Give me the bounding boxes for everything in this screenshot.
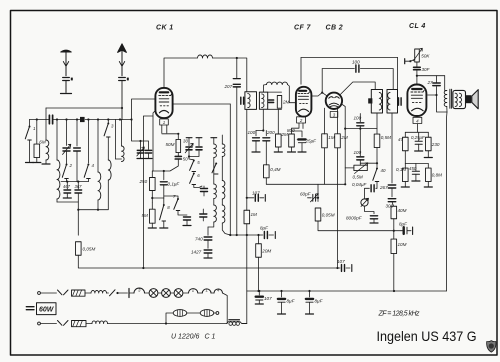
wire rail235 <box>230 234 261 236</box>
capacitor pair g2 <box>145 150 151 153</box>
resistor 2M CB2 <box>335 134 348 148</box>
svg-text:0,8M: 0,8M <box>432 173 442 178</box>
terminal bar heater string <box>128 289 130 298</box>
node J1b <box>163 170 165 172</box>
switch heater tap <box>110 290 116 296</box>
node c107b <box>258 290 260 292</box>
wire r230 dn <box>427 151 429 157</box>
capacitor 27 <box>427 80 441 86</box>
wire ant2 to input rail <box>121 81 123 120</box>
wire cap01 link <box>152 197 164 199</box>
wire 005M drop upper <box>77 202 79 235</box>
resistor 5M <box>142 209 156 223</box>
wire heater e <box>183 292 189 294</box>
node rail d <box>87 118 89 120</box>
resistor 2M IF1 <box>277 96 289 109</box>
tube CL4 envelope <box>407 85 426 117</box>
wire 5M dn <box>151 223 153 227</box>
svg-text:107: 107 <box>337 259 345 264</box>
terminal bar 107 HT <box>351 265 353 272</box>
wire osc a <box>203 186 205 188</box>
wire rail230 ext <box>401 230 402 232</box>
svg-text:60W: 60W <box>39 307 55 314</box>
ground 450 <box>412 180 420 182</box>
arrow tuning cap <box>63 144 71 154</box>
wire cath left drop <box>143 116 153 268</box>
wire mains upper a <box>41 292 57 294</box>
svg-text:467: 467 <box>63 184 71 189</box>
svg-text:30: 30 <box>183 139 188 144</box>
wire 1M CB2 top <box>324 108 326 134</box>
wire r230 top <box>427 132 429 137</box>
wire rail CF7 plate <box>301 57 398 59</box>
wire rail CB2 100 <box>322 68 354 70</box>
svg-text:267: 267 <box>379 185 388 190</box>
node rail sw1 <box>36 118 38 120</box>
fuse mains lower <box>72 321 87 327</box>
svg-text:8μF: 8μF <box>260 226 269 231</box>
wire mains lower b <box>86 323 92 325</box>
wire 50M top <box>177 134 179 140</box>
capacitor osc b <box>184 217 191 220</box>
wire input rail lower right <box>85 119 131 121</box>
svg-text:207: 207 <box>224 84 233 89</box>
capacitor tuning variable <box>63 148 70 151</box>
node 30F junction <box>416 75 418 77</box>
wire c107b dn <box>258 300 260 303</box>
wire rail CB2 100 b <box>360 68 393 70</box>
wire 10M dn <box>393 254 395 292</box>
wire sw4 top <box>87 120 89 164</box>
wire heater b <box>145 292 150 294</box>
capacitor 30F <box>414 67 431 72</box>
wire J1 cross <box>152 170 164 172</box>
capacitor 200 grid <box>263 130 275 141</box>
wire c8a dn <box>281 303 283 314</box>
wire 800 dn <box>291 147 293 152</box>
coil osc L6c <box>222 205 225 223</box>
node heater tap <box>116 292 118 294</box>
node rail235 a <box>236 234 238 236</box>
wire 250 dn <box>151 191 153 203</box>
svg-text:1M: 1M <box>251 212 258 217</box>
wire mains upper d <box>118 292 128 294</box>
wire CF7 grid caps bus <box>256 130 263 132</box>
svg-text:0,05M: 0,05M <box>83 247 96 252</box>
svg-text:20M: 20M <box>261 249 271 254</box>
svg-text:230: 230 <box>431 142 440 147</box>
IF transformer 1 primary box <box>245 92 257 110</box>
wire 300 dn <box>392 202 394 206</box>
wire det cap column <box>359 114 361 122</box>
wire CF7 pin lead b <box>302 123 304 128</box>
dial lamp 2 <box>162 289 171 298</box>
coil L2 band <box>57 160 60 199</box>
svg-text:2: 2 <box>69 163 73 168</box>
node rail e <box>97 118 99 120</box>
node grid feed <box>130 118 132 120</box>
coil grid CF7 <box>267 82 288 84</box>
wire CB2 diode lead <box>341 104 345 185</box>
tube CF7 envelope <box>296 87 312 117</box>
resistor 230 <box>426 137 440 151</box>
svg-text:4: 4 <box>217 288 220 293</box>
node rail g <box>119 118 121 120</box>
wire sw8 dn <box>163 221 165 228</box>
wire sw8 top <box>163 198 165 205</box>
wire CK1 pin lead b <box>166 125 168 133</box>
svg-text:27: 27 <box>427 80 434 85</box>
wire CB2 diag <box>340 82 375 95</box>
terminal bar 8uF coupling <box>412 227 414 235</box>
terminal ballast <box>216 312 219 315</box>
resistor 0.05M <box>76 242 96 256</box>
wire 005M det dn <box>318 221 401 231</box>
wire osc main vertical <box>229 104 231 235</box>
wire IF1 sec top ext <box>268 91 282 93</box>
ground sw8 <box>160 227 168 229</box>
svg-text:+: + <box>297 138 300 144</box>
svg-text:1: 1 <box>205 288 207 293</box>
wire IF1 sec dn <box>262 109 264 130</box>
terminal bar trim30 <box>186 137 192 139</box>
capacitor 8uF stub <box>260 226 269 239</box>
coil mains filter upper <box>91 291 107 294</box>
wire padder top <box>198 138 200 146</box>
wire IF2 right drop <box>392 69 394 90</box>
svg-text:250: 250 <box>139 179 148 184</box>
tube CF7 pin box 2 <box>297 117 306 123</box>
svg-text:8μF: 8μF <box>399 222 408 227</box>
coil osc L5a <box>214 144 217 158</box>
wire ground rail <box>247 290 447 292</box>
coil IF1 primary <box>248 94 250 108</box>
wire 004 to jack <box>365 188 370 199</box>
capacitor 467 <box>64 190 71 193</box>
wire 40M dn <box>393 219 395 231</box>
resistor 250 <box>139 178 156 191</box>
pickup jack <box>361 198 369 206</box>
wire row2c top <box>427 164 429 169</box>
resistor ballast b <box>173 310 187 317</box>
svg-text:107: 107 <box>264 296 272 301</box>
wire mains upper c <box>107 292 109 294</box>
wire B+ jog <box>417 75 445 77</box>
wire row2a dn <box>404 182 406 187</box>
wire CK1 pin lead a <box>161 125 163 133</box>
coil L5 band <box>122 146 125 162</box>
capacitor 107 det <box>252 191 260 202</box>
ground L1 <box>42 163 50 165</box>
node c8a <box>280 290 282 292</box>
capacitor 60pF trimmer <box>300 191 318 202</box>
wire mains to ground rail <box>246 291 248 324</box>
resistor 20M <box>256 244 272 258</box>
capacitor 50 <box>175 156 188 161</box>
capacitor 0.1uF <box>160 182 180 187</box>
ground row2c <box>424 186 432 188</box>
capacitor 207 <box>224 84 241 89</box>
wire IF2 prim dn <box>376 113 378 134</box>
capacitor 25uF <box>298 139 317 144</box>
node trim junction <box>188 155 190 157</box>
switch 8 <box>160 204 171 221</box>
svg-text:60pF: 60pF <box>300 191 312 196</box>
wire coilA top <box>213 138 215 144</box>
wire sw5 top <box>189 157 194 160</box>
terminal bar padder <box>196 137 202 139</box>
wire det cap dn <box>359 160 361 165</box>
node row198 <box>246 197 248 199</box>
svg-text:740: 740 <box>195 237 203 242</box>
wire row2a top <box>404 164 406 169</box>
speaker cone <box>472 90 478 109</box>
coil anode RF choke <box>198 55 213 58</box>
ground 6M <box>33 162 41 164</box>
wire 207 stub <box>236 58 238 78</box>
capacitor 107 HT <box>337 259 345 271</box>
svg-text:40: 40 <box>381 168 386 173</box>
wire L1 top <box>45 120 47 141</box>
wire 367 top <box>77 182 79 189</box>
filament transformer <box>227 319 247 325</box>
wire row198 c <box>308 197 312 199</box>
resistor 6M <box>34 140 46 158</box>
IF transformer 1 secondary box <box>259 92 267 109</box>
switch 9 pickup <box>373 168 379 182</box>
node c8b <box>308 290 310 292</box>
mark ant2 a <box>127 78 129 81</box>
wire sw1 top <box>29 120 31 127</box>
resistor 0.5M det <box>374 134 391 148</box>
wire 27 column <box>436 87 438 95</box>
wire 2M CB2 dn long <box>337 148 339 268</box>
svg-text:CK 1: CK 1 <box>156 25 174 32</box>
node diode rail <box>344 183 346 185</box>
wire 50K dn <box>416 62 418 67</box>
node 207 top <box>236 57 238 59</box>
svg-text:2M: 2M <box>282 100 290 105</box>
wire CL4 bottom bus <box>405 131 428 133</box>
wire 740 dn <box>207 240 209 248</box>
ground 8000pF <box>370 222 378 224</box>
svg-text:4: 4 <box>92 163 95 168</box>
svg-text:450: 450 <box>409 166 417 171</box>
speaker magnet <box>466 95 472 103</box>
tube CL4 pin box 4 <box>413 117 422 123</box>
wire jack dn <box>365 206 375 214</box>
wire CB2 left drop <box>322 69 327 97</box>
node bus 467 <box>66 181 68 183</box>
wire trim dn <box>188 151 190 157</box>
svg-text:50M: 50M <box>166 142 175 147</box>
capacitor 100 grid <box>248 130 260 141</box>
wire cap200 top <box>265 131 267 136</box>
wire sw1 dn <box>29 140 31 162</box>
svg-text:0,1μF: 0,1μF <box>168 182 181 187</box>
wire heater c <box>158 292 162 294</box>
resistor 0.4M <box>264 165 281 178</box>
node rail235 b <box>257 234 259 236</box>
wire mains lower c <box>108 323 227 325</box>
capacitor trimmer 30 <box>183 139 193 153</box>
ground 230 <box>424 157 432 159</box>
wire primary top <box>445 90 447 92</box>
fuse mains upper <box>72 290 86 296</box>
wire C var down <box>66 151 68 164</box>
coil L4 band <box>108 160 111 180</box>
capacitor 100 det b <box>354 150 364 160</box>
wire rail upper left drop <box>45 108 47 120</box>
wire 2M grid dn <box>277 147 279 152</box>
label 60W box <box>37 303 57 315</box>
wire heater f <box>198 292 203 294</box>
wire CL4 lead <box>416 124 418 132</box>
wire C fix top <box>76 120 78 147</box>
resistor 40M <box>391 206 407 219</box>
wire L2 bottom to bus <box>56 199 58 202</box>
wire sw9 dn <box>376 182 378 189</box>
wire transformer top drop <box>444 76 446 91</box>
wire HT rail <box>143 267 337 269</box>
wire plate down <box>437 95 448 112</box>
capacitor 107 rail <box>256 296 272 301</box>
svg-text:100: 100 <box>354 150 362 155</box>
capacitor 1427 <box>191 250 212 255</box>
svg-text:8μF: 8μF <box>315 299 324 304</box>
coil L1 antenna <box>46 140 49 160</box>
svg-text:1M: 1M <box>328 135 335 140</box>
svg-text:6M: 6M <box>39 140 46 145</box>
wire C fix down <box>76 151 78 182</box>
capacitor IF2 right <box>399 98 402 105</box>
arrow trimmer g1 <box>137 147 145 156</box>
wire rail drop right <box>397 58 399 98</box>
wire 10M top <box>393 231 395 239</box>
IF transformer 2 secondary box <box>387 90 398 114</box>
svg-text:1: 1 <box>163 120 166 125</box>
wire IF1 prim dn <box>246 109 248 210</box>
wire loop return base <box>116 158 122 160</box>
wire rail235 cap <box>261 234 263 236</box>
capacitor series antenna <box>49 115 52 124</box>
node 250 bot <box>151 197 153 199</box>
svg-text:0,4M: 0,4M <box>270 167 280 172</box>
ground cap100 <box>252 151 260 153</box>
wire 20M dn <box>258 257 260 291</box>
wire heater return <box>223 293 228 324</box>
svg-text:107: 107 <box>252 191 260 196</box>
wire CK1 plate to osc <box>173 103 230 105</box>
capacitor 300 <box>386 199 396 209</box>
ground 2M grid <box>274 151 282 153</box>
coil osc L6b <box>222 181 225 200</box>
ground c107b <box>255 303 263 305</box>
wire r47 dn <box>404 151 406 164</box>
node return mains <box>165 322 167 324</box>
switch 4 <box>84 163 94 179</box>
wire ballast term <box>214 312 216 314</box>
wire grid feed CK1 <box>132 99 156 120</box>
node capg <box>139 140 141 142</box>
wire 2M CB2 top <box>337 109 339 134</box>
wire 207 dn <box>236 87 238 235</box>
ground c8b <box>306 313 314 315</box>
resistor 800 <box>287 128 295 147</box>
capacitor osc c <box>200 214 207 217</box>
wire row2c dn <box>427 182 429 187</box>
svg-text:8μF: 8μF <box>287 299 296 304</box>
wire CF7 top cap <box>300 58 302 85</box>
wire 740 top <box>207 227 209 235</box>
wire 8000 dn <box>373 219 375 223</box>
node rail 394 <box>393 290 395 292</box>
capacitor 450 <box>409 164 420 181</box>
wire coilA link2 <box>213 199 215 206</box>
wire 04M dn <box>265 178 267 185</box>
coil osc L6a <box>222 144 225 157</box>
wire capg2 dn <box>147 153 149 158</box>
svg-text:3: 3 <box>333 112 336 117</box>
wire capg1 dn <box>140 153 142 158</box>
svg-text:25μF: 25μF <box>305 139 318 144</box>
ground capg1 <box>137 158 144 160</box>
svg-text:6: 6 <box>197 173 200 178</box>
tube CB2 envelope <box>326 93 342 109</box>
wire heater d <box>170 292 174 294</box>
wire top loop right <box>213 58 247 92</box>
wire 467 top <box>66 182 68 189</box>
svg-text:CL 4: CL 4 <box>409 23 426 30</box>
resistor 2M grid <box>276 132 289 147</box>
wire CK1 cath left <box>153 110 156 171</box>
wire band bus <box>61 181 88 183</box>
coil output primary <box>444 91 447 107</box>
wire coilA bot <box>208 222 214 227</box>
node rail c <box>76 118 78 120</box>
ground osc <box>204 257 212 259</box>
svg-text:5: 5 <box>197 160 200 165</box>
wire transformer bottom <box>446 112 449 291</box>
node busA left <box>344 128 346 130</box>
node 394 rail230 <box>393 230 395 232</box>
capacitor padder block <box>80 117 85 122</box>
wire trim feeder <box>132 120 149 142</box>
wire CF7 pin lead a <box>292 123 300 134</box>
terminal bar ant1 <box>61 93 72 95</box>
node osc bus a <box>177 133 179 135</box>
wire grid coil dn <box>288 85 296 103</box>
wire 25uF dn <box>301 143 303 152</box>
node 1M rail235 <box>246 234 248 236</box>
wire IF2 sec dn <box>391 113 393 183</box>
switch 2 <box>62 163 72 179</box>
coil IF1 secondary <box>262 94 264 108</box>
wire osc c dn <box>202 217 204 221</box>
terminal mains lower <box>38 322 41 325</box>
svg-text:4: 4 <box>416 119 419 124</box>
svg-text:ZF = 128,5 kHz: ZF = 128,5 kHz <box>378 310 421 317</box>
svg-text:100: 100 <box>352 60 360 65</box>
coil mains filter lower <box>92 321 108 324</box>
switch 6 <box>190 173 201 185</box>
node CB2 left <box>321 92 323 94</box>
svg-text:0,05M: 0,05M <box>322 213 335 218</box>
wire det bus A <box>345 128 377 130</box>
wire C var top <box>66 120 68 146</box>
wire 30F dn <box>416 70 418 84</box>
node capbus <box>262 129 264 131</box>
